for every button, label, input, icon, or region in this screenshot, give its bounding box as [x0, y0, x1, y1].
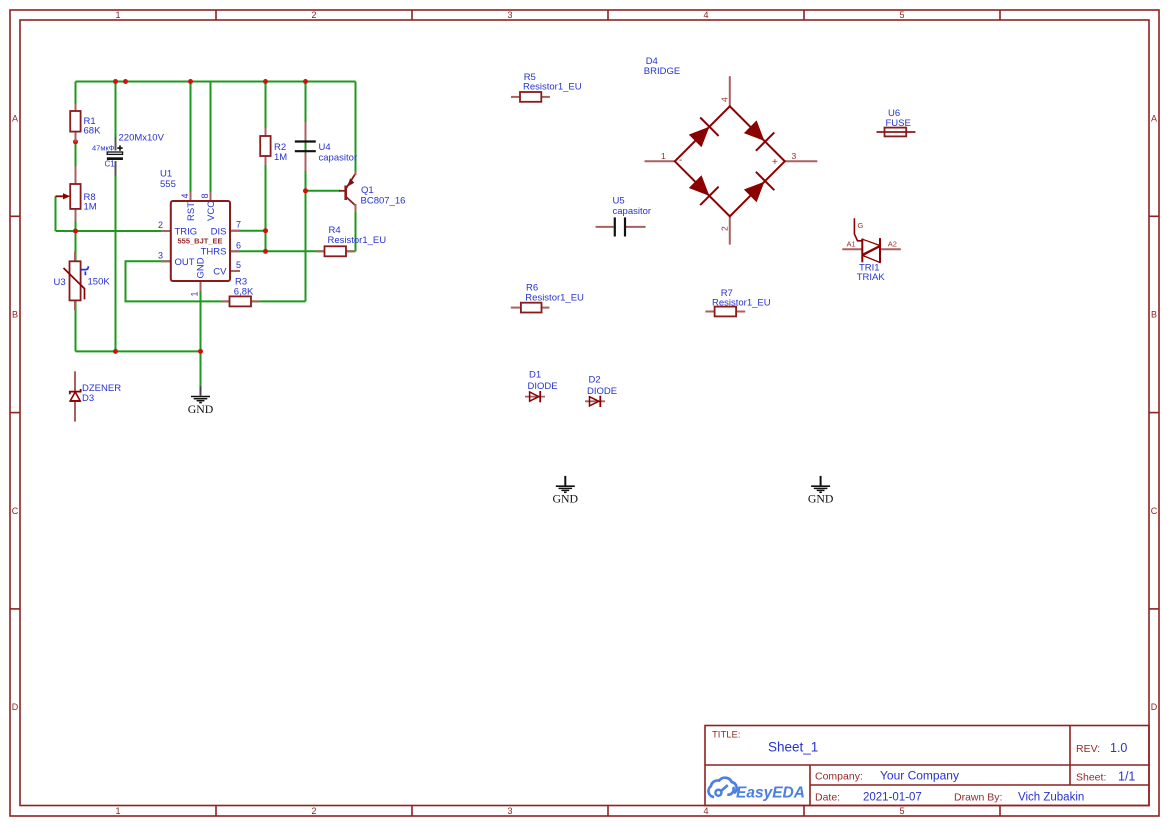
- wire THRS to R4: [230, 250, 325, 252]
- row tick right 2: [1149, 412, 1159, 414]
- svg-text:4: 4: [180, 193, 190, 198]
- svg-text:Resistor1_EU: Resistor1_EU: [328, 235, 387, 246]
- wire GND drop: [200, 281, 202, 387]
- wire U4 branch: [305, 82, 307, 302]
- svg-text:GND: GND: [808, 491, 834, 505]
- svg-text:47мкФ: 47мкФ: [92, 143, 115, 152]
- svg-text:-: -: [679, 155, 682, 166]
- resistor R6: [511, 283, 584, 313]
- svg-text:BC807_16: BC807_16: [361, 196, 406, 207]
- svg-text:TRIAK: TRIAK: [857, 272, 886, 283]
- junction U4 rail: [303, 79, 308, 84]
- wire bottom rail: [76, 350, 201, 352]
- column tick bottom 3: [607, 806, 609, 817]
- svg-text:capasitor: capasitor: [319, 152, 358, 163]
- junction U4-Q1 base: [303, 188, 308, 193]
- junction dots: [73, 79, 308, 354]
- svg-text:D3: D3: [82, 393, 94, 404]
- svg-text:4: 4: [703, 806, 708, 816]
- svg-text:FUSE: FUSE: [886, 118, 911, 129]
- wire RST pin4 to rail: [190, 82, 192, 202]
- bridge diamond: [675, 106, 785, 216]
- column tick bottom 5: [999, 806, 1001, 817]
- svg-text:CV: CV: [213, 267, 227, 278]
- column tick top 1: [215, 10, 217, 20]
- svg-text:B: B: [12, 310, 18, 320]
- svg-text:4: 4: [720, 97, 730, 102]
- svg-text:5: 5: [236, 260, 241, 270]
- wire C1 branch: [115, 82, 117, 352]
- svg-text:+: +: [772, 157, 778, 168]
- svg-text:Your Company: Your Company: [880, 769, 959, 783]
- svg-text:5: 5: [899, 10, 904, 20]
- svg-text:1.0: 1.0: [1110, 741, 1127, 755]
- svg-text:RST: RST: [186, 202, 197, 221]
- svg-text:3: 3: [792, 151, 797, 161]
- bridge diode UL: [689, 118, 719, 148]
- svg-text:1: 1: [190, 291, 200, 296]
- svg-text:Resistor1_EU: Resistor1_EU: [523, 82, 582, 93]
- svg-text:7: 7: [236, 220, 241, 230]
- junction bottom C1: [113, 349, 118, 354]
- capacitor C1 electrolytic: [92, 133, 165, 176]
- wire left branch R1/R8/U3: [75, 82, 77, 352]
- thermistor U3: [54, 251, 111, 310]
- column tick top 3: [607, 10, 609, 20]
- row tick left 3: [10, 608, 20, 610]
- transistor Q1 BC807_16 (PNP): [339, 172, 405, 213]
- bridge rectifier D4: [644, 56, 818, 245]
- wire R4 to Q1: [346, 250, 356, 252]
- svg-text:C: C: [1151, 506, 1158, 516]
- svg-text:A: A: [1151, 113, 1157, 123]
- svg-text:Date:: Date:: [815, 792, 840, 804]
- svg-text:Resistor1_EU: Resistor1_EU: [525, 293, 584, 304]
- wire base Q1: [306, 190, 341, 192]
- svg-text:DIODE: DIODE: [528, 381, 558, 392]
- wire R8 wiper down: [55, 196, 57, 231]
- wire top VCC rail: [76, 81, 356, 83]
- svg-text:Sheet:: Sheet:: [1076, 772, 1106, 784]
- bridge leads: [645, 76, 818, 244]
- svg-text:TITLE:: TITLE:: [712, 730, 741, 741]
- svg-text:VCC: VCC: [206, 201, 217, 221]
- svg-text:2: 2: [311, 806, 316, 816]
- resistor R3: [221, 276, 260, 306]
- bridge diode UR: [744, 120, 774, 150]
- triac TRI1: [842, 218, 901, 283]
- svg-text:U3: U3: [54, 277, 66, 288]
- svg-text:1: 1: [661, 151, 666, 161]
- row tick right 3: [1149, 608, 1159, 610]
- bridge diode LL: [689, 175, 719, 205]
- svg-text:555: 555: [160, 179, 176, 190]
- svg-text:1M: 1M: [274, 152, 287, 163]
- capacitor U4: [295, 122, 357, 171]
- svg-text:THRS: THRS: [201, 247, 227, 258]
- column tick bottom 1: [215, 806, 217, 817]
- row tick right 1: [1149, 215, 1159, 217]
- op-amp U1 555 timer: [158, 169, 241, 297]
- resistor R7: [705, 288, 770, 317]
- junction THRS-R2: [263, 249, 268, 254]
- svg-text:Vich Zubakin: Vich Zubakin: [1018, 792, 1084, 804]
- svg-text:A: A: [12, 113, 18, 123]
- wire VCC pin8 to rail: [210, 82, 212, 202]
- TITLE BLOCK: [705, 726, 1149, 806]
- svg-text:GND: GND: [188, 402, 214, 416]
- row tick left 2: [10, 412, 20, 414]
- svg-text:1: 1: [115, 806, 120, 816]
- svg-text:2: 2: [311, 10, 316, 20]
- svg-text:68K: 68K: [84, 126, 102, 137]
- ground GND (middle): [553, 476, 579, 505]
- junction C1 top: [113, 79, 118, 84]
- column tick top 2: [411, 10, 413, 20]
- svg-text:GND: GND: [553, 491, 579, 505]
- svg-text:Q1: Q1: [361, 185, 374, 196]
- svg-text:G: G: [858, 221, 864, 230]
- svg-text:555_BJT_EE: 555_BJT_EE: [177, 237, 222, 246]
- svg-text:3: 3: [507, 10, 512, 20]
- column tick bottom 4: [803, 806, 805, 817]
- svg-text:3: 3: [507, 806, 512, 816]
- svg-text:220Mx10V: 220Mx10V: [119, 133, 165, 144]
- svg-text:BRIDGE: BRIDGE: [644, 66, 680, 77]
- wire Q1 emitter to R4: [355, 204, 357, 251]
- svg-text:capasitor: capasitor: [613, 206, 652, 217]
- junction RST rail: [188, 79, 193, 84]
- svg-text:Company:: Company:: [815, 771, 863, 783]
- resistor R2: [260, 128, 287, 165]
- row tick left 1: [10, 215, 20, 217]
- junction R2 rail: [263, 79, 268, 84]
- resistor R4: [317, 225, 387, 256]
- junction DIS-R2: [263, 228, 268, 233]
- junction R1-R8: [73, 139, 78, 144]
- svg-text:Drawn By:: Drawn By:: [954, 792, 1002, 804]
- svg-text:1: 1: [115, 10, 120, 20]
- svg-text:4: 4: [703, 10, 708, 20]
- fuse U6: [877, 108, 916, 136]
- svg-text:1M: 1M: [84, 202, 97, 213]
- svg-text:A2: A2: [888, 239, 897, 248]
- svg-text:2: 2: [158, 220, 163, 230]
- svg-text:EasyEDA: EasyEDA: [736, 785, 805, 802]
- svg-text:6: 6: [236, 240, 241, 250]
- svg-text:GND: GND: [196, 257, 207, 278]
- wire DIS to R2: [230, 230, 266, 232]
- svg-text:REV:: REV:: [1076, 743, 1100, 755]
- bridge diode LR: [744, 172, 774, 202]
- svg-text:C: C: [12, 506, 19, 516]
- wire TRIG: [56, 230, 172, 232]
- resistor R1: [70, 104, 101, 142]
- svg-text:1/1: 1/1: [1118, 770, 1135, 784]
- svg-text:B: B: [1151, 310, 1157, 320]
- WIRES (left 555 circuit): [56, 82, 356, 388]
- wire Q1 collector-emitter branch: [355, 82, 357, 176]
- svg-text:3: 3: [158, 250, 163, 260]
- svg-text:2: 2: [720, 226, 730, 231]
- diode D1: [525, 370, 558, 403]
- junction TRIG-R8: [73, 229, 78, 234]
- column tick bottom 2: [411, 806, 413, 817]
- svg-text:Resistor1_EU: Resistor1_EU: [712, 298, 771, 309]
- svg-text:D: D: [1151, 702, 1158, 712]
- EasyEDA logo: [708, 778, 804, 802]
- column tick top 4: [803, 10, 805, 20]
- svg-text:OUT: OUT: [175, 257, 195, 268]
- resistor R5: [511, 72, 582, 102]
- svg-text:D: D: [12, 702, 19, 712]
- ground GND (555): [188, 386, 214, 415]
- junction bottom GND: [198, 349, 203, 354]
- wire OUT loop: [126, 261, 306, 301]
- diode D2: [585, 375, 617, 408]
- junction rail x125: [123, 79, 128, 84]
- potentiometer R8: [56, 166, 97, 221]
- svg-text:5: 5: [899, 806, 904, 816]
- svg-text:D1: D1: [529, 370, 541, 381]
- svg-text:150K: 150K: [88, 277, 111, 288]
- svg-text:DIODE: DIODE: [587, 386, 617, 397]
- svg-text:A1: A1: [847, 239, 856, 248]
- zener diode D3: [70, 371, 121, 421]
- svg-text:Sheet_1: Sheet_1: [768, 740, 818, 755]
- column tick top 5: [999, 10, 1001, 20]
- svg-text:6,8K: 6,8K: [234, 287, 254, 298]
- capacitor U5: [596, 196, 651, 237]
- svg-text:2021-01-07: 2021-01-07: [863, 792, 922, 804]
- wire R2 branch: [265, 82, 267, 252]
- svg-text:8: 8: [200, 193, 210, 198]
- ground GND (right): [808, 476, 834, 505]
- svg-text:C1: C1: [105, 159, 116, 168]
- svg-text:D2: D2: [589, 375, 601, 386]
